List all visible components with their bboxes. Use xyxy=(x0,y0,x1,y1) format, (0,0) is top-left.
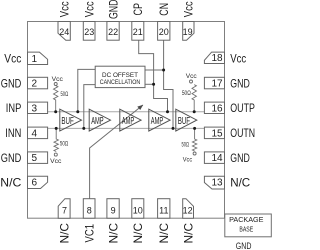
svg-text:GND: GND xyxy=(236,241,252,250)
resistor R3 50 ohm output top xyxy=(190,80,193,83)
DC offset cancellation block xyxy=(95,66,145,87)
svg-text:Vcc: Vcc xyxy=(52,76,64,83)
svg-text:N/C: N/C xyxy=(131,222,145,243)
svg-text:VC1: VC1 xyxy=(82,224,96,243)
svg-text:PACKAGE: PACKAGE xyxy=(229,215,263,224)
pin 13 xyxy=(204,176,224,189)
pin 9 xyxy=(107,199,119,219)
svg-text:15: 15 xyxy=(211,128,223,139)
pin 11 xyxy=(158,199,170,219)
pin 18 xyxy=(204,52,224,63)
resistor R2 50 ohm input bottom xyxy=(54,128,58,151)
pin 22 xyxy=(107,22,119,41)
svg-text:Vcc: Vcc xyxy=(230,52,246,66)
svg-text:N/C: N/C xyxy=(181,222,195,243)
svg-text:GND: GND xyxy=(230,151,250,165)
svg-text:Vcc: Vcc xyxy=(183,157,193,164)
svg-text:GND: GND xyxy=(106,0,120,19)
wire DC offset box lower-left to bottom rail xyxy=(84,85,95,129)
wire DC offset box upper-right to node CN xyxy=(145,69,164,71)
pin 2 xyxy=(28,77,48,89)
svg-text:11: 11 xyxy=(159,205,168,215)
svg-text:16: 16 xyxy=(211,103,223,114)
svg-text:N/C: N/C xyxy=(157,222,171,243)
junction CN feed to bottom rail xyxy=(172,127,175,130)
svg-text:N/C: N/C xyxy=(57,222,71,243)
svg-text:1: 1 xyxy=(32,54,38,65)
pin 17 xyxy=(204,77,224,89)
pin 4 xyxy=(28,127,48,139)
svg-text:14: 14 xyxy=(211,153,223,164)
svg-text:AMP: AMP xyxy=(122,116,135,127)
svg-text:18: 18 xyxy=(211,53,223,64)
svg-text:19: 19 xyxy=(183,27,193,37)
svg-text:9: 9 xyxy=(111,205,116,215)
svg-text:CN: CN xyxy=(157,3,171,16)
pin 7 xyxy=(58,199,70,219)
buffer BUF2 xyxy=(176,109,197,131)
buffer BUF1 xyxy=(60,109,82,131)
pin 16 xyxy=(204,102,224,113)
svg-text:Vcc: Vcc xyxy=(57,1,71,17)
pin 6 xyxy=(28,176,48,188)
svg-text:50Ω: 50Ω xyxy=(182,90,191,97)
pin 15 xyxy=(204,127,224,139)
svg-text:INN: INN xyxy=(5,126,21,140)
junction DC offset sense to bottom rail xyxy=(82,127,85,130)
wire CN from pin 20 to DC offset upper wire and bottom rail xyxy=(164,40,173,128)
svg-text:N/C: N/C xyxy=(106,222,120,243)
svg-text:CANCELLATION: CANCELLATION xyxy=(100,79,141,86)
svg-text:6: 6 xyxy=(32,178,38,189)
junction DC offset sense to top rail xyxy=(76,110,79,113)
svg-text:BUF: BUF xyxy=(178,116,190,127)
pin 24 xyxy=(58,22,70,41)
package base block xyxy=(225,214,271,237)
svg-text:Vcc: Vcc xyxy=(4,52,21,66)
pin 8 xyxy=(83,199,95,219)
pin 10 xyxy=(132,199,144,219)
svg-text:4: 4 xyxy=(32,128,38,139)
svg-text:OUTP: OUTP xyxy=(230,101,255,115)
svg-text:50Ω: 50Ω xyxy=(60,141,68,148)
junction R1 to INP rail xyxy=(54,110,57,113)
svg-text:OUTN: OUTN xyxy=(230,126,255,140)
pin 14 xyxy=(204,152,224,164)
svg-text:Vcc: Vcc xyxy=(181,1,195,17)
svg-text:CP: CP xyxy=(131,3,145,16)
pin 20 xyxy=(158,22,170,41)
amplifier AMP3 xyxy=(149,109,170,131)
node INP rail (top differential rail) xyxy=(48,111,205,113)
svg-text:N/C: N/C xyxy=(0,176,21,190)
svg-text:24: 24 xyxy=(59,27,69,37)
amplifier AMP2 variable gain xyxy=(120,109,141,131)
svg-text:BASE: BASE xyxy=(239,224,253,233)
svg-text:50Ω: 50Ω xyxy=(61,91,69,98)
svg-text:23: 23 xyxy=(84,27,94,37)
svg-text:Vcc: Vcc xyxy=(186,73,198,80)
svg-text:12: 12 xyxy=(183,205,193,215)
svg-text:3: 3 xyxy=(32,103,38,114)
junction CN wire and DC offset upper output xyxy=(162,69,165,72)
pin 3 xyxy=(28,102,48,113)
resistor R4 50 ohm output bottom xyxy=(192,128,196,151)
pin 21 xyxy=(132,22,144,41)
svg-text:50Ω: 50Ω xyxy=(182,141,190,148)
svg-text:Vcc: Vcc xyxy=(50,158,62,165)
svg-text:GND: GND xyxy=(230,76,250,90)
pin 12 xyxy=(183,199,194,219)
pin 23 xyxy=(83,22,95,41)
svg-text:AMP: AMP xyxy=(91,116,104,127)
package outline xyxy=(28,22,225,219)
arrowhead of VC1 gain control xyxy=(137,105,143,110)
svg-text:8: 8 xyxy=(87,205,92,215)
svg-text:17: 17 xyxy=(211,79,223,90)
svg-text:7: 7 xyxy=(62,205,67,215)
svg-text:5: 5 xyxy=(32,153,38,164)
svg-text:Vcc: Vcc xyxy=(82,1,96,17)
svg-text:INP: INP xyxy=(6,101,22,115)
junction CP wire and DC offset lower output xyxy=(152,83,155,86)
wire VC1 gain control from pin 8 xyxy=(90,105,143,199)
svg-text:22: 22 xyxy=(108,27,118,37)
svg-text:13: 13 xyxy=(211,178,223,189)
amplifier AMP1 xyxy=(89,109,110,131)
svg-text:10: 10 xyxy=(133,205,143,215)
wire DC offset box upper-left to top rail xyxy=(78,69,95,111)
svg-text:20: 20 xyxy=(159,27,169,37)
junction R4 to OUTN rail xyxy=(193,127,196,130)
junction R3 to OUTP rail xyxy=(193,110,196,113)
svg-text:N/C: N/C xyxy=(230,176,250,190)
junction CP feed to top rail xyxy=(166,110,169,113)
junction R2 to INN rail xyxy=(55,127,58,130)
pin 5 xyxy=(28,152,48,164)
resistor R1 50 ohm input top xyxy=(54,83,57,86)
svg-text:GND: GND xyxy=(1,151,22,165)
wire CP from pin 21 to DC offset lower wire and top rail xyxy=(139,40,168,112)
svg-text:BUF: BUF xyxy=(61,116,73,127)
node INN rail (bottom differential rail) xyxy=(48,127,205,129)
pin 19 xyxy=(183,22,194,41)
svg-text:AMP: AMP xyxy=(151,116,164,127)
wire DC offset box lower-right to node CP xyxy=(145,83,154,85)
pin 1 xyxy=(28,52,48,64)
svg-text:2: 2 xyxy=(32,79,38,90)
svg-text:21: 21 xyxy=(133,27,143,37)
svg-text:GND: GND xyxy=(1,76,22,90)
